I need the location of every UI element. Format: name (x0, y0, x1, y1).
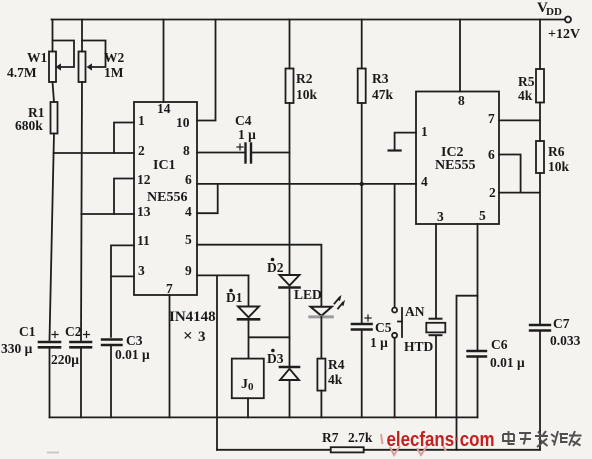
wire R5 top to rail (539, 20, 541, 70)
svg-text:8: 8 (183, 143, 190, 158)
svg-text:12: 12 (137, 172, 151, 187)
svg-text:D1: D1 (226, 290, 243, 305)
wire IC1 pin 6 to IC2 pin 4 (197, 183, 416, 185)
wire R5 to R6 (539, 103, 541, 142)
svg-text:R2: R2 (296, 71, 313, 86)
wire D3 to ground rail (289, 380, 291, 417)
svg-text:C6: C6 (491, 337, 508, 352)
wire W2 to C2 (81, 82, 82, 340)
svg-text:330 μ: 330 μ (1, 341, 33, 356)
label C1 330u (1, 324, 36, 356)
resistor R3 (358, 69, 366, 104)
svg-text:1M: 1M (104, 65, 124, 80)
svg-text:3: 3 (198, 329, 206, 345)
potentiometer W1 (49, 41, 74, 83)
resistor R6 (536, 141, 544, 173)
svg-text:×: × (183, 326, 193, 345)
svg-text:1 μ: 1 μ (370, 335, 388, 350)
wire IC2 pin 7 to R5/R6 (499, 119, 540, 121)
wire R1 to C1 (slight diagonal) (50, 134, 55, 341)
wire Jo to ground rail (247, 398, 249, 417)
label HTD (404, 339, 434, 354)
label LED (294, 287, 322, 302)
svg-text:+12V: +12V (548, 27, 580, 42)
wire R6 bottom down to C7 (539, 173, 541, 324)
svg-text:2: 2 (138, 143, 145, 158)
svg-text:3: 3 (437, 209, 444, 224)
wire IC1 pin 9 to D1 (197, 274, 249, 276)
wire D1 cathode to Jo and D3 branch (249, 320, 290, 359)
svg-text:10k: 10k (296, 87, 318, 102)
label R4 4k (328, 357, 345, 387)
label R3 47k (372, 71, 394, 102)
svg-text:1: 1 (138, 113, 145, 128)
svg-text:W1: W1 (27, 50, 48, 65)
svg-text:0.01 μ: 0.01 μ (490, 355, 525, 370)
capacitor C4 (237, 144, 251, 163)
svg-text:220μ: 220μ (51, 352, 79, 367)
svg-text:NE556: NE556 (147, 190, 187, 205)
svg-text:IC1: IC1 (153, 158, 176, 173)
wire pin9 to D1 top (248, 275, 250, 305)
label R1 680k (15, 105, 45, 133)
wire R2 bottom down through pin6 wire to D2 (289, 103, 291, 275)
svg-text:W2: W2 (104, 50, 125, 65)
relay Jo (232, 359, 264, 399)
svg-text:11: 11 (137, 233, 150, 248)
wire R4 to ground rail (320, 391, 322, 418)
svg-text:13: 13 (137, 204, 151, 219)
label R6 10k (548, 144, 570, 174)
wire R3 bottom to junction (361, 103, 363, 184)
node junction R3 / pin6 wire / C5 (360, 182, 364, 186)
svg-text:2.7k: 2.7k (348, 430, 373, 445)
wire IC1 pin 1 (114, 123, 134, 154)
potentiometer W2 (79, 41, 106, 83)
resistor R5 (536, 69, 544, 103)
svg-text:D2: D2 (267, 260, 284, 275)
label D2 (267, 258, 284, 275)
svg-text:R5: R5 (518, 74, 535, 89)
capacitor C7 (530, 325, 550, 331)
watermark chinese characters (503, 431, 582, 447)
svg-text:4.7M: 4.7M (7, 65, 37, 80)
svg-text:5: 5 (185, 232, 192, 247)
wire IC2 pin 2 to R6 bottom (499, 192, 540, 194)
wire LED to R4 (320, 317, 322, 359)
wire IC2 pin 3 to HTD (435, 224, 437, 318)
svg-text:7: 7 (488, 111, 495, 126)
svg-text:HTD: HTD (404, 339, 434, 354)
svg-text:0: 0 (248, 381, 254, 393)
svg-text:4k: 4k (518, 88, 533, 103)
svg-text:C7: C7 (553, 316, 570, 331)
label VDD (537, 0, 580, 42)
label C7 0.033 (550, 316, 581, 348)
wire W2 drop from rail (81, 20, 83, 52)
svg-text:9: 9 (185, 263, 192, 278)
IC1 NE556 (134, 102, 197, 295)
wire IC2 pin 5 to C6 (477, 224, 479, 350)
svg-text:8: 8 (458, 93, 465, 108)
svg-text:680k: 680k (15, 118, 43, 133)
wire IC1 pin 12 (114, 179, 134, 215)
svg-text:J: J (241, 377, 248, 392)
watermark elecfans.com (387, 429, 495, 451)
svg-text:3: 3 (138, 263, 145, 278)
label W1 4.7M (7, 50, 48, 80)
label R7 2.7k (322, 430, 373, 445)
svg-text:elecfans·com: elecfans·com (387, 429, 495, 451)
svg-text:2: 2 (489, 185, 496, 200)
wire IC1 pin 11 (111, 245, 134, 336)
capacitor C6 (468, 351, 487, 357)
label R5 4k (518, 74, 535, 103)
wire IC2 pin 6 joins pin 2 (499, 155, 521, 193)
svg-text:DD: DD (546, 6, 562, 18)
capacitor C2 (71, 332, 92, 418)
svg-text:C5: C5 (375, 320, 392, 335)
svg-text:1 μ: 1 μ (238, 127, 256, 142)
svg-text:C2: C2 (65, 324, 82, 339)
label C5 1u (370, 320, 392, 350)
resistor R2 (286, 69, 294, 104)
wire IC1 pin 2 (54, 152, 134, 154)
label IC1 NE556 pin numbers (137, 101, 192, 296)
wire IC2 pin 8 to rail (459, 20, 461, 92)
scan artifact faint dash bottom left (47, 452, 59, 454)
diode D2 (280, 275, 300, 288)
wire C6 to ground rail (477, 358, 479, 418)
label IC2 NE555 pin numbers (421, 93, 496, 224)
wire IC1 pin 4 joins pin 6 wire (197, 184, 218, 213)
wire R2 top to rail (289, 20, 291, 69)
wire IC1 pin 8 to C4 (197, 152, 244, 154)
buzzer HTD (426, 319, 445, 336)
svg-text:AN: AN (405, 304, 425, 319)
wire R3 top to rail (361, 20, 363, 69)
wire top VDD rail (52, 19, 566, 21)
resistor R1 (51, 102, 58, 134)
capacitor C3 (102, 340, 122, 418)
svg-text:10k: 10k (548, 159, 570, 174)
scan artifact red marks under watermark (381, 434, 446, 455)
wire C5 to ground rail (361, 331, 363, 418)
wire IC1 pin 14 to rail (163, 20, 165, 103)
label D3 (267, 349, 284, 366)
ground IC2 pin 1 (389, 133, 416, 151)
svg-text:NE555: NE555 (435, 158, 475, 173)
svg-text:0.01 μ: 0.01 μ (115, 347, 150, 362)
svg-text:4k: 4k (328, 372, 343, 387)
wire HTD to ground rail (435, 336, 437, 417)
svg-text:5: 5 (479, 208, 486, 223)
wire IC1 pin 5 to LED (197, 245, 321, 306)
wire pin 9 junction down to R7 line (216, 275, 218, 449)
wire IC1 pin 13 (81, 213, 134, 215)
svg-text:R6: R6 (548, 144, 565, 159)
wire IC1 pin 10 to rail (197, 20, 216, 121)
wire bottom R7 line right (364, 449, 540, 451)
svg-text:R3: R3 (372, 71, 389, 86)
svg-text:6: 6 (185, 172, 192, 187)
svg-text:C4: C4 (235, 113, 252, 128)
svg-text:14: 14 (157, 101, 171, 116)
resistor R4 (317, 359, 325, 391)
svg-text:4: 4 (185, 204, 192, 219)
svg-text:47k: 47k (372, 87, 394, 102)
svg-text:C3: C3 (126, 333, 143, 348)
wire ground rail (50, 416, 478, 418)
svg-text:7: 7 (166, 281, 173, 296)
label R2 10k (296, 71, 318, 102)
svg-text:C1: C1 (19, 324, 36, 339)
label D1 (226, 289, 243, 305)
capacitor C1 (39, 332, 60, 418)
label C2 220u (51, 324, 82, 367)
node VDD terminal (565, 17, 571, 23)
label C6 0.01u (490, 337, 525, 370)
svg-text:10: 10 (176, 115, 190, 130)
wire IC1 pin 3 (111, 275, 134, 277)
svg-text:1: 1 (421, 124, 428, 139)
svg-text:IN4148: IN4148 (169, 309, 216, 325)
svg-text:R7: R7 (322, 430, 339, 445)
wire bottom R7 line left (217, 449, 331, 451)
wire D2 to D3 (289, 288, 291, 367)
LED (310, 295, 345, 317)
diode D1 (238, 307, 259, 320)
IC2 NE555 (416, 92, 499, 225)
diode D3 (280, 367, 299, 380)
label AN (405, 304, 425, 319)
wire junction to C5 (361, 184, 363, 323)
label Jo (241, 377, 254, 393)
wire pin5 branch to bottom line (457, 296, 478, 450)
svg-text:D3: D3 (267, 351, 284, 366)
label C3 0.01u (115, 333, 150, 362)
wire C4 to R2 line (252, 152, 290, 154)
svg-text:4: 4 (421, 174, 428, 189)
wire IC1 pin 7 to ground rail (169, 295, 171, 417)
svg-text:6: 6 (488, 147, 495, 162)
label C4 1u (235, 113, 256, 142)
svg-text:LED: LED (294, 287, 322, 302)
label IN4148 x3 (169, 309, 216, 345)
wire C7 to bottom line (539, 332, 541, 450)
capacitor C5 (352, 315, 372, 330)
wire W1 to R1 (53, 82, 55, 102)
push button AN (392, 184, 402, 418)
wire W1 drop from rail (52, 20, 54, 52)
resistor R7 (331, 447, 364, 452)
svg-text:0.033: 0.033 (550, 333, 581, 348)
label W2 1M (104, 50, 125, 80)
svg-text:R4: R4 (328, 357, 345, 372)
